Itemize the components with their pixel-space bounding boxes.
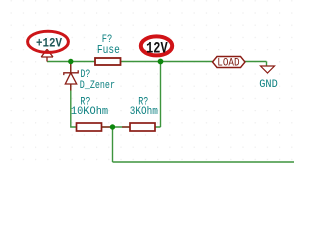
svg-text:10KOhm: 10KOhm xyxy=(71,106,109,118)
wire resistor row xyxy=(77,126,161,128)
svg-text:D_Zener: D_Zener xyxy=(80,80,115,92)
label GND xyxy=(259,79,278,91)
svg-text:LOAD: LOAD xyxy=(217,58,240,70)
svg-text:GND: GND xyxy=(259,79,278,91)
zener diode D? xyxy=(64,62,78,91)
label D? xyxy=(81,69,91,81)
wire bottom rail xyxy=(113,161,295,163)
annotation ellipse 12V xyxy=(141,36,172,57)
junction node at 12V sense xyxy=(158,59,164,65)
junction node at zener tap xyxy=(68,59,73,64)
label R? left xyxy=(80,96,90,108)
resistor R? 10KOhm xyxy=(77,123,111,131)
label F? xyxy=(102,34,113,46)
label 3KOhm xyxy=(130,106,158,118)
fuse F1 xyxy=(95,58,121,65)
global label LOAD xyxy=(213,57,246,70)
gnd symbol xyxy=(261,66,275,73)
label Fuse xyxy=(97,44,120,57)
wire divider tap down xyxy=(112,127,114,162)
wire gnd drop xyxy=(266,62,268,67)
svg-text:12V: 12V xyxy=(146,39,168,57)
wire top rail xyxy=(47,61,267,63)
wire zener branch vertical xyxy=(71,62,77,128)
label R? right xyxy=(138,96,148,108)
label 10KOhm xyxy=(71,106,109,118)
svg-text:3KOhm: 3KOhm xyxy=(130,106,158,118)
resistor R? 3KOhm xyxy=(122,123,155,131)
power flag +12V xyxy=(41,49,53,61)
junction node divider tap xyxy=(110,124,115,129)
annotation ellipse +12V xyxy=(28,31,69,52)
wire 12V sense vertical xyxy=(160,62,162,128)
svg-text:Fuse: Fuse xyxy=(97,44,120,57)
label D_Zener xyxy=(80,80,115,92)
svg-text:+12V: +12V xyxy=(36,35,62,50)
